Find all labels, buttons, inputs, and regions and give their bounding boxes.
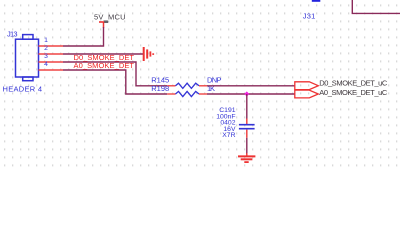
wire pin4 (A0) [63, 70, 167, 94]
power symbol 5V_MCU [99, 22, 108, 28]
wire R145 to offpage D0 [207, 85, 295, 87]
connector J13 [16, 35, 39, 81]
resistor R198 [167, 91, 207, 96]
wire pin2 to ground [63, 53, 143, 55]
svg-text:2: 2 [44, 45, 48, 52]
svg-text:4: 4 [44, 61, 48, 68]
svg-text:A0_SMOKE_DET_uC: A0_SMOKE_DET_uC [319, 88, 388, 97]
ground [238, 153, 255, 162]
svg-text:5V_MCU: 5V_MCU [94, 13, 126, 22]
pin 3 [39, 61, 64, 63]
component edge (cut off, top) [312, 0, 321, 2]
svg-text:A0_SMOKE_DET: A0_SMOKE_DET [74, 61, 135, 70]
svg-text:J31: J31 [303, 12, 316, 21]
wire junction to capacitor [246, 94, 248, 119]
wire pin1 to 5V [63, 27, 104, 46]
ground (sideways) [144, 47, 154, 61]
pin 2 [39, 53, 64, 55]
svg-text:J13: J13 [7, 29, 18, 38]
svg-text:D0_SMOKE_DET_uC: D0_SMOKE_DET_uC [319, 79, 388, 88]
svg-text:HEADER 4: HEADER 4 [3, 85, 43, 94]
wire pin3 (D0) [63, 62, 167, 86]
pin 1 [39, 45, 64, 47]
pin 4 [39, 69, 64, 71]
wire R198 to offpage A0 [207, 93, 295, 95]
svg-text:3: 3 [44, 53, 48, 60]
off-page connector A0_SMOKE_DET_uC [295, 90, 319, 98]
off-page connector D0_SMOKE_DET_uC [295, 82, 319, 90]
wire capacitor to ground [246, 138, 248, 154]
capacitor C191 [239, 119, 255, 138]
svg-text:R198: R198 [151, 84, 169, 93]
junction [244, 91, 249, 96]
svg-text:1: 1 [44, 37, 48, 44]
wire (title block corner, top right) [352, 0, 400, 13]
resistor R145 [167, 83, 207, 88]
svg-text:X7R: X7R [222, 132, 235, 139]
